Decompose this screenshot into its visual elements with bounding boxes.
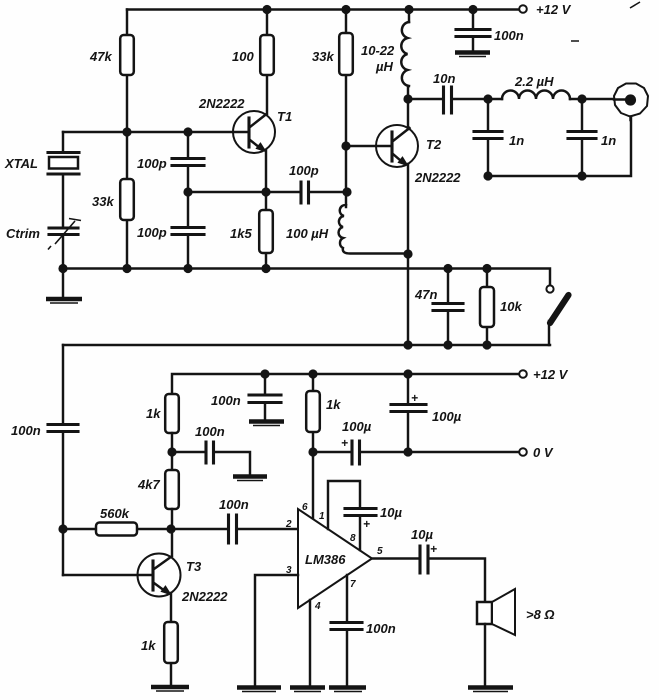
capacitor 10u output (420, 546, 428, 573)
svg-text:1k5: 1k5 (230, 226, 252, 241)
svg-text:47n: 47n (414, 287, 437, 302)
noise marks (571, 2, 640, 41)
wire T3 emitter (170, 593, 172, 686)
svg-text:10-22: 10-22 (361, 43, 395, 58)
wire node to 100n coupling (172, 528, 298, 530)
wire top +12V rail (127, 8, 520, 10)
capacitor 47n (447, 269, 449, 346)
svg-text:100µ: 100µ (432, 409, 462, 424)
svg-text:7: 7 (350, 579, 356, 590)
wire pin6 supply (312, 452, 314, 518)
resistor 10k (486, 269, 488, 346)
wire oscillator ground bus y268 (61, 269, 550, 286)
crystal XTAL (48, 153, 79, 175)
wire 47k column (126, 10, 128, 269)
transistor T3 2N2222 (138, 554, 181, 597)
wire audio +12V rail (172, 374, 520, 394)
wire 4k7 to node (171, 509, 173, 556)
capacitor 100p series (301, 182, 309, 203)
wire left audio input column (63, 345, 96, 575)
resistor 4k7 (165, 470, 179, 509)
svg-text:4k7: 4k7 (137, 477, 160, 492)
svg-text:µH: µH (375, 59, 393, 74)
capacitor 100n zobel (331, 623, 362, 630)
capacitor 10n (444, 87, 452, 113)
wire 100p column (187, 132, 189, 269)
terminal 0V (519, 448, 527, 456)
svg-text:4: 4 (314, 601, 321, 612)
wire T2 emitter (407, 164, 409, 345)
ground under 100n top right (455, 50, 490, 55)
wire 1k bottom node to 100n (172, 452, 250, 474)
capacitor 100n top right (472, 10, 474, 51)
connector RF output (614, 84, 648, 117)
capacitor 100n decoupling (264, 374, 266, 419)
svg-text:LM386: LM386 (305, 552, 346, 567)
inductor 100uH (339, 205, 408, 254)
wire pin4 (309, 600, 311, 686)
svg-text:10µ: 10µ (411, 527, 433, 542)
ground pin3 (237, 685, 281, 690)
svg-text:100 µH: 100 µH (286, 226, 329, 241)
svg-text:5: 5 (377, 546, 383, 557)
ground pin4 (290, 685, 325, 690)
terminal +12V audio (519, 370, 527, 378)
svg-text:33k: 33k (92, 194, 114, 209)
svg-text:+: + (411, 391, 418, 405)
svg-text:47k: 47k (89, 49, 112, 64)
svg-text:1k: 1k (141, 638, 156, 653)
ground 100n bias (233, 474, 267, 479)
wire emitter row y192 (188, 191, 347, 193)
wire XTAL column (62, 132, 64, 269)
svg-text:100n: 100n (366, 621, 396, 636)
svg-text:T2: T2 (426, 137, 442, 152)
wire pi-filter bottom row (488, 117, 631, 176)
svg-text:>8 Ω: >8 Ω (526, 607, 555, 622)
svg-text:+: + (430, 542, 437, 556)
resistor 560k (137, 528, 172, 530)
wire 33k column (345, 10, 347, 208)
svg-text:1k: 1k (326, 397, 341, 412)
svg-text:100n: 100n (195, 424, 225, 439)
svg-text:2.2 µH: 2.2 µH (514, 74, 554, 89)
svg-text:100n: 100n (11, 423, 41, 438)
wire T1 base line (63, 131, 248, 133)
capacitor 100n coupling (229, 515, 237, 543)
svg-text:2: 2 (285, 519, 292, 530)
svg-text:Ctrim: Ctrim (6, 226, 40, 241)
trimmer Ctrim (49, 228, 78, 235)
svg-text:560k: 560k (100, 506, 130, 521)
transistor T1 2N2222 (233, 111, 275, 153)
svg-text:+12 V: +12 V (536, 2, 572, 17)
svg-text:100n: 100n (211, 393, 241, 408)
svg-text:100p: 100p (137, 156, 167, 171)
resistor 47k (120, 35, 134, 75)
svg-text:XTAL: XTAL (4, 156, 38, 171)
svg-text:10n: 10n (433, 71, 455, 86)
wire sidetone bus y345 (63, 344, 550, 346)
wire output pin5 (372, 559, 485, 603)
capacitor 100p lower (172, 228, 204, 235)
wire 1k left bottom (171, 433, 173, 470)
svg-text:2N2222: 2N2222 (181, 589, 228, 604)
resistor 33k lower-left (120, 179, 134, 220)
svg-text:1k: 1k (146, 406, 161, 421)
svg-text:2N2222: 2N2222 (198, 96, 245, 111)
svg-text:100: 100 (232, 49, 254, 64)
resistor 1k audio left (165, 394, 179, 433)
wire pin7 (346, 575, 348, 686)
capacitor 100p upper (172, 159, 204, 166)
resistor 1k T3 (164, 622, 178, 663)
wire T1 collector/emitter (265, 150, 267, 269)
wire pin3 (255, 575, 298, 686)
wire T2 collector (407, 99, 409, 129)
svg-text:33k: 33k (312, 49, 334, 64)
svg-text:1n: 1n (601, 133, 616, 148)
svg-text:8: 8 (350, 533, 356, 544)
wire speaker ground (484, 624, 486, 686)
ground speaker (468, 685, 513, 690)
op-amp U1 LM386 (298, 509, 372, 608)
wire 0V rail (313, 451, 520, 453)
svg-text:T1: T1 (277, 109, 292, 124)
transistor T2 2N2222 (376, 125, 418, 167)
ground oscillator bus (62, 269, 64, 298)
svg-text:100n: 100n (219, 497, 249, 512)
wire RF row y99 (408, 98, 614, 100)
svg-text:100n: 100n (494, 28, 524, 43)
speaker LS1 (477, 602, 492, 624)
capacitor 100u horizontal (352, 441, 360, 464)
svg-text:6: 6 (302, 502, 308, 513)
svg-text:T3: T3 (186, 559, 202, 574)
svg-text:+: + (363, 517, 370, 531)
switch S1 (546, 285, 553, 292)
capacitor 100u vertical (407, 374, 409, 452)
inductor 10-22uH (408, 10, 409, 100)
capacitor 100n bias (206, 442, 214, 463)
svg-text:+12 V: +12 V (533, 367, 569, 382)
svg-text:2N2222: 2N2222 (414, 170, 461, 185)
capacitor 10u gain (345, 509, 376, 516)
resistor 100 (260, 35, 274, 75)
resistor 33k top (339, 33, 353, 75)
svg-text:10µ: 10µ (380, 505, 402, 520)
ground 100n decoupling (249, 419, 284, 424)
svg-text:10k: 10k (500, 299, 522, 314)
terminal +12V top (519, 5, 527, 13)
capacitor 1n left (487, 99, 489, 176)
capacitor 100n input (48, 425, 78, 432)
svg-text:1n: 1n (509, 133, 524, 148)
svg-text:100µ: 100µ (342, 419, 372, 434)
svg-text:+: + (341, 436, 348, 450)
svg-text:1: 1 (319, 511, 325, 522)
wire 100 column (266, 10, 268, 115)
ground 100n zobel (329, 685, 366, 690)
resistor 1k5 (259, 210, 273, 253)
svg-text:100p: 100p (137, 225, 167, 240)
ground T3 (151, 685, 189, 690)
wire pin1 loop (328, 481, 360, 529)
capacitor 1n right (581, 99, 583, 176)
svg-text:0 V: 0 V (533, 445, 554, 460)
resistor 1k audio right (312, 374, 314, 452)
svg-text:100p: 100p (289, 163, 319, 178)
inductor 2.2uH (502, 91, 570, 100)
